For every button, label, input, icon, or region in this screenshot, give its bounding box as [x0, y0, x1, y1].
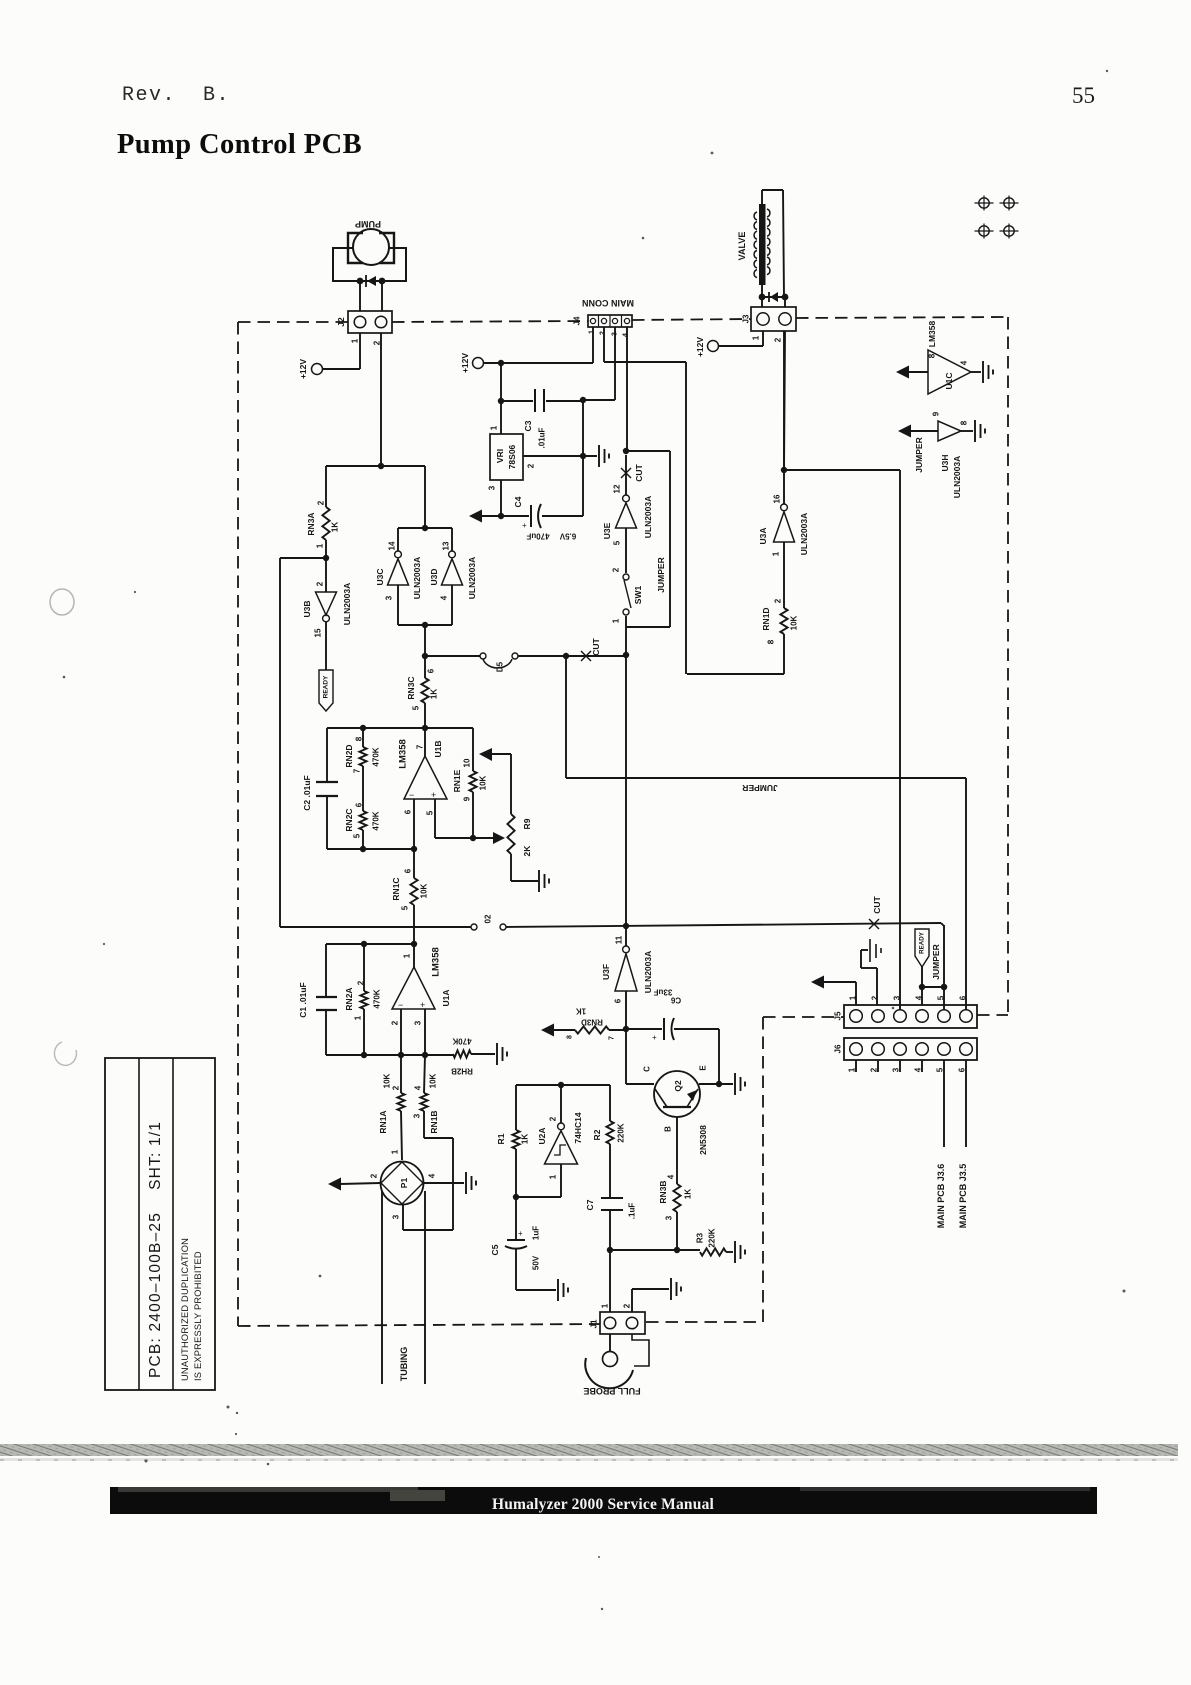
svg-text:2: 2 [871, 995, 880, 1000]
svg-text:+: + [652, 1033, 657, 1042]
svg-text:2: 2 [392, 1085, 401, 1090]
svg-text:74HC14: 74HC14 [573, 1112, 583, 1143]
svg-text:2: 2 [623, 1303, 632, 1308]
svg-text:PCB: 2400–100B–25 SHT: 1/1: PCB: 2400–100B–25 SHT: 1/1 [147, 1121, 164, 1378]
svg-text:CUT: CUT [591, 637, 601, 655]
svg-text:2: 2 [612, 567, 621, 572]
svg-text:10K: 10K [383, 1073, 392, 1088]
svg-text:1: 1 [490, 425, 499, 430]
svg-text:16: 16 [773, 494, 782, 503]
svg-text:6: 6 [355, 802, 364, 807]
svg-text:IS EXPRESSLY PROHIBITED: IS EXPRESSLY PROHIBITED [193, 1251, 203, 1381]
svg-text:LM358: LM358 [927, 321, 937, 348]
svg-text:ULN2003A: ULN2003A [799, 513, 809, 556]
svg-text:3: 3 [665, 1215, 674, 1220]
svg-text:9: 9 [463, 796, 472, 801]
svg-text:5: 5 [613, 540, 622, 545]
svg-text:.1uF: .1uF [628, 1203, 637, 1220]
svg-text:.01uF: .01uF [538, 427, 547, 448]
svg-text:TUBING: TUBING [399, 1347, 409, 1382]
svg-text:55: 55 [1072, 83, 1095, 108]
svg-text:JUMPER: JUMPER [656, 557, 666, 592]
svg-text:5: 5 [412, 705, 421, 710]
svg-text:470K: 470K [372, 811, 381, 830]
svg-text:J4: J4 [573, 316, 582, 325]
svg-text:C1 .01uF: C1 .01uF [298, 982, 308, 1017]
svg-text:U3C: U3C [375, 568, 385, 585]
svg-text:4: 4 [960, 360, 969, 365]
svg-text:1: 1 [752, 335, 761, 340]
svg-text:U3A: U3A [758, 527, 768, 544]
svg-text:RN1B: RN1B [429, 1110, 439, 1133]
svg-text:220K: 220K [708, 1228, 717, 1247]
svg-text:2: 2 [527, 463, 536, 468]
svg-text:+: + [518, 1229, 523, 1238]
svg-text:1K: 1K [521, 1134, 530, 1144]
svg-text:RN1E: RN1E [452, 769, 462, 792]
svg-text:ULN2003A: ULN2003A [952, 456, 962, 499]
svg-text:12: 12 [613, 484, 622, 493]
svg-text:2: 2 [317, 500, 326, 505]
svg-text:1: 1 [772, 551, 781, 556]
svg-text:50V: 50V [532, 1255, 541, 1270]
svg-text:B: B [664, 1126, 673, 1132]
svg-text:1: 1 [601, 1303, 610, 1308]
svg-text:CUT: CUT [872, 895, 882, 913]
svg-text:3: 3 [385, 595, 394, 600]
svg-text:5: 5 [401, 905, 410, 910]
svg-text:+: + [431, 790, 436, 800]
svg-text:U2A: U2A [537, 1127, 547, 1144]
svg-text:RN3A: RN3A [306, 512, 316, 535]
svg-text:J1: J1 [590, 1319, 599, 1328]
svg-text:1: 1 [849, 995, 858, 1000]
svg-text:VALVE: VALVE [737, 232, 747, 261]
svg-text:RN2D: RN2D [344, 744, 354, 767]
svg-text:8: 8 [767, 639, 776, 644]
svg-text:2: 2 [316, 581, 325, 586]
svg-text:6: 6 [427, 668, 436, 673]
svg-text:Pump Control PCB: Pump Control PCB [117, 129, 362, 160]
svg-text:33uF: 33uF [654, 988, 673, 997]
svg-text:10K: 10K [479, 775, 488, 790]
svg-text:READY: READY [323, 675, 330, 698]
svg-text:2N5308: 2N5308 [698, 1125, 708, 1155]
svg-text:8: 8 [567, 1035, 574, 1039]
svg-text:470K: 470K [372, 747, 381, 766]
svg-text:5: 5 [426, 810, 435, 815]
svg-text:R3: R3 [696, 1232, 705, 1243]
svg-text:LM358: LM358 [431, 947, 442, 977]
svg-text:PUMP: PUMP [355, 219, 381, 229]
svg-text:MAIN PCB J3.6: MAIN PCB J3.6 [936, 1164, 946, 1229]
svg-text:4: 4 [667, 1174, 676, 1179]
svg-text:J6: J6 [834, 1044, 843, 1053]
svg-text:RN3B: RN3B [658, 1180, 668, 1203]
svg-text:ULN2003A: ULN2003A [643, 951, 653, 994]
svg-text:RN1A: RN1A [378, 1110, 388, 1133]
svg-text:8: 8 [960, 420, 969, 425]
svg-text:470K: 470K [452, 1037, 471, 1046]
svg-text:−: − [398, 1000, 403, 1010]
svg-text:1: 1 [589, 330, 596, 334]
svg-text:UNAUTHORIZED DUPLICATION: UNAUTHORIZED DUPLICATION [180, 1238, 190, 1381]
svg-text:9: 9 [932, 411, 941, 416]
svg-text:470uF: 470uF [526, 532, 549, 541]
svg-text:11: 11 [615, 935, 624, 944]
svg-text:J5: J5 [834, 1011, 843, 1020]
svg-text:2: 2 [357, 980, 366, 985]
svg-text:U3D: U3D [429, 568, 439, 585]
svg-text:+12V: +12V [695, 337, 705, 357]
svg-text:RH2B: RH2B [451, 1067, 473, 1076]
svg-text:1: 1 [354, 1015, 363, 1020]
svg-text:Rev. B.: Rev. B. [122, 84, 230, 107]
svg-text:1: 1 [612, 618, 621, 623]
svg-text:C: C [643, 1066, 652, 1072]
svg-text:CUT: CUT [634, 463, 644, 481]
svg-text:U1B: U1B [433, 740, 443, 757]
svg-text:4: 4 [428, 1173, 437, 1178]
svg-text:13: 13 [442, 541, 451, 550]
svg-text:+12V: +12V [298, 359, 308, 379]
svg-text:J2: J2 [336, 317, 346, 327]
svg-text:RN1D: RN1D [761, 607, 771, 630]
svg-text:1K: 1K [331, 522, 340, 532]
svg-text:1: 1 [316, 543, 325, 548]
svg-text:ULN2003A: ULN2003A [412, 557, 422, 600]
svg-text:J3: J3 [742, 314, 751, 323]
svg-text:R2: R2 [592, 1129, 602, 1140]
svg-text:7: 7 [353, 768, 362, 773]
svg-text:4: 4 [440, 595, 449, 600]
svg-text:2: 2 [391, 1020, 400, 1025]
svg-text:3: 3 [893, 995, 902, 1000]
svg-text:2: 2 [549, 1116, 558, 1121]
svg-text:C7: C7 [585, 1199, 595, 1210]
svg-text:8: 8 [355, 736, 364, 741]
svg-text:RN2A: RN2A [344, 987, 354, 1010]
svg-text:10K: 10K [790, 615, 799, 630]
svg-text:E: E [699, 1065, 708, 1071]
svg-text:+: + [420, 1000, 425, 1010]
svg-text:2: 2 [774, 337, 783, 342]
svg-text:P1: P1 [399, 1178, 409, 1189]
svg-text:2K: 2K [522, 845, 532, 857]
svg-text:READY: READY [919, 931, 926, 954]
svg-text:Q2: Q2 [673, 1080, 683, 1092]
svg-text:4: 4 [623, 333, 630, 337]
svg-text:R1: R1 [496, 1133, 506, 1144]
svg-text:3: 3 [414, 1020, 423, 1025]
svg-text:U3F: U3F [601, 964, 611, 980]
svg-text:5: 5 [353, 833, 362, 838]
svg-text:6: 6 [959, 995, 968, 1000]
svg-text:7: 7 [609, 1036, 616, 1040]
svg-text:C2 .01uF: C2 .01uF [302, 775, 312, 810]
svg-text:RN3D: RN3D [581, 1018, 603, 1027]
svg-text:6: 6 [404, 809, 413, 814]
svg-text:10: 10 [463, 758, 472, 767]
svg-text:JUMPER: JUMPER [931, 944, 941, 979]
svg-text:10K: 10K [420, 883, 429, 898]
svg-text:6: 6 [404, 868, 413, 873]
svg-text:JUMPER: JUMPER [914, 437, 924, 472]
svg-text:2: 2 [774, 598, 783, 603]
svg-text:ULN2003A: ULN2003A [643, 496, 653, 539]
svg-text:10K: 10K [429, 1073, 438, 1088]
svg-text:U3B: U3B [302, 600, 312, 617]
svg-text:Humalyzer 2000 Service Manual: Humalyzer 2000 Service Manual [492, 1496, 715, 1513]
svg-text:MAIN PCB J3.5: MAIN PCB J3.5 [958, 1164, 968, 1229]
svg-text:2: 2 [600, 331, 607, 335]
svg-text:4: 4 [915, 995, 924, 1000]
svg-text:7: 7 [416, 744, 425, 749]
svg-text:FULL PROBE: FULL PROBE [583, 1386, 640, 1396]
svg-text:ULN2003A: ULN2003A [342, 583, 352, 626]
svg-text:470K: 470K [373, 989, 382, 1008]
svg-text:RN1C: RN1C [391, 877, 401, 900]
svg-text:1uF: 1uF [532, 1226, 541, 1240]
svg-text:4: 4 [414, 1085, 423, 1090]
svg-text:1: 1 [351, 338, 360, 343]
svg-text:14: 14 [388, 541, 397, 550]
svg-text:3: 3 [488, 485, 497, 490]
svg-text:C3: C3 [523, 420, 533, 431]
svg-text:1: 1 [549, 1174, 558, 1179]
svg-text:2: 2 [370, 1173, 379, 1178]
svg-text:RN3C: RN3C [406, 676, 416, 699]
svg-text:U3E: U3E [602, 522, 612, 539]
svg-text:ULN2003A: ULN2003A [467, 557, 477, 600]
svg-text:3: 3 [392, 1214, 401, 1219]
svg-text:MAIN CONN: MAIN CONN [582, 298, 634, 308]
svg-text:U1C: U1C [944, 372, 954, 389]
svg-text:SW1: SW1 [633, 586, 643, 605]
svg-text:U1A: U1A [441, 989, 451, 1006]
svg-text:C4: C4 [513, 496, 523, 507]
svg-text:LM358: LM358 [398, 739, 409, 769]
svg-text:78S06: 78S06 [507, 444, 517, 469]
svg-text:+: + [522, 521, 527, 530]
svg-text:220K: 220K [617, 1123, 626, 1142]
svg-text:1K: 1K [684, 1189, 693, 1199]
svg-text:6.5V: 6.5V [559, 532, 576, 541]
svg-text:RN2C: RN2C [344, 808, 354, 831]
svg-text:8: 8 [928, 353, 937, 358]
svg-text:1K: 1K [576, 1007, 586, 1016]
svg-text:−: − [409, 790, 414, 800]
svg-text:JUMPER: JUMPER [742, 783, 777, 793]
svg-text:+12V: +12V [460, 353, 470, 373]
svg-text:5: 5 [937, 995, 946, 1000]
svg-text:D5: D5 [496, 661, 505, 672]
svg-text:3: 3 [413, 1113, 422, 1118]
svg-text:1K: 1K [430, 689, 439, 699]
svg-text:VRI: VRI [495, 449, 505, 463]
svg-text:15: 15 [314, 628, 323, 637]
svg-text:C5: C5 [490, 1244, 500, 1255]
svg-text:1: 1 [391, 1149, 400, 1154]
svg-text:U3H: U3H [940, 454, 950, 471]
svg-text:1: 1 [403, 953, 412, 958]
svg-text:02: 02 [484, 914, 493, 923]
svg-text:6: 6 [614, 998, 623, 1003]
svg-text:R9: R9 [522, 818, 532, 829]
